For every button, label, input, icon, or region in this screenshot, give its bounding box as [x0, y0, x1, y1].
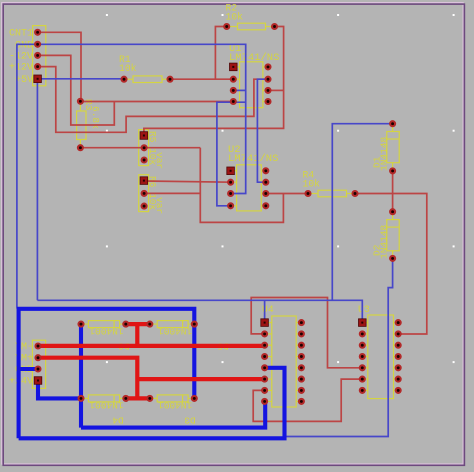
pin U3.R11: [396, 354, 401, 359]
wire U4 pin2 to U3 pin L5: [251, 298, 362, 368]
svg-text:U3: U3: [358, 304, 370, 315]
pin U4.R14: [299, 377, 304, 382]
pin U1.R4: [266, 99, 271, 104]
wire -12V branch down to node: [38, 55, 115, 125]
diode D4 lead2: [120, 397, 126, 399]
pin R4.1: [306, 191, 311, 196]
pin U4.L5: [262, 365, 267, 370]
diode D1 body: [387, 132, 399, 163]
bus GND left vertical: [17, 309, 21, 439]
pin U4.L1: [261, 319, 269, 327]
svg-text:LM741/NS: LM741/NS: [228, 153, 278, 165]
diode D1 lead2: [392, 163, 394, 171]
pin U3.L3: [360, 343, 365, 348]
diode D4 leads: [81, 397, 88, 399]
resistor R2 leads: [227, 26, 238, 28]
pin U3.R8: [396, 320, 401, 325]
svg-text:LM741/NS: LM741/NS: [229, 52, 279, 64]
resistor R2 lead2: [266, 26, 275, 28]
wire R1.right to U1 pin2: [170, 78, 233, 80]
pin J1.4 +12V: [35, 64, 40, 69]
wire D1 cathode to D2 anode: [392, 171, 394, 212]
pin J1.2 GND: [35, 42, 40, 47]
diode D6 body: [88, 321, 119, 328]
pin R1.2: [168, 77, 173, 82]
svg-text:-12V: -12V: [9, 51, 33, 62]
pin J2.4 +24V: [34, 377, 42, 385]
bus bridge node D4-D3: [125, 396, 150, 400]
wire GND tee to U2 pin5: [217, 102, 246, 206]
pin U1.R3: [266, 88, 271, 93]
svg-text:1N4001: 1N4001: [158, 325, 193, 336]
pin J2.1 YM-: [36, 344, 41, 349]
pin R2.1: [224, 24, 229, 29]
bus YM- tee to diode bridge top: [135, 324, 139, 346]
pin R5.3: [142, 158, 147, 163]
pin D2.K: [390, 256, 395, 261]
pin U4.R12: [299, 354, 304, 359]
pin U1.L1: [230, 63, 238, 71]
svg-text:CNT1: CNT1: [9, 28, 33, 39]
wire branch to U1 pin6 output: [268, 89, 284, 91]
wire R3.top to U1 pin4: [80, 101, 233, 103]
resistor R2 body: [238, 23, 266, 30]
wire U4 pin7 to U3 pin L6: [253, 379, 362, 421]
bus GND bottom run to U4 pin5: [19, 368, 285, 439]
wire GND tee to U1 pin3: [233, 89, 245, 91]
pin R3.2: [78, 145, 83, 150]
wire +5V horizontal run: [37, 300, 362, 322]
svg-text:D4: D4: [112, 415, 124, 426]
pin U1.R2: [266, 77, 271, 82]
pin R3.1: [78, 99, 83, 104]
svg-text:10k: 10k: [119, 63, 137, 74]
pin R1.1: [122, 77, 127, 82]
pin R6.3: [142, 204, 147, 209]
bus GND stub J2.3: [17, 367, 38, 371]
pin U4.L7: [262, 388, 267, 393]
svg-text:+24V: +24V: [9, 377, 33, 388]
wire R5.1 net to R2.right: [144, 27, 284, 136]
pin D3.1: [147, 396, 152, 401]
pin D6.2: [123, 322, 128, 327]
wire GND net to U1/U2: [38, 44, 246, 193]
pin R6.1: [140, 177, 148, 185]
wire +5V vertical drop: [36, 79, 38, 300]
svg-text:1N4148: 1N4148: [379, 224, 390, 259]
diode D5 leads: [150, 323, 157, 325]
pin U4.L4: [262, 354, 267, 359]
pin U4.R16: [299, 399, 304, 404]
wire R5.2 net down: [200, 148, 283, 223]
pin D6.1: [79, 322, 84, 327]
wire R4.right to U3 pin R2: [355, 194, 427, 335]
pin J2.2 YM+: [36, 355, 41, 360]
pin U4.L3: [262, 343, 267, 348]
pin U4.R11: [299, 343, 304, 348]
resistor R1 leads: [124, 78, 133, 80]
wire GND left drop: [17, 44, 38, 309]
pin U1.R1: [266, 64, 271, 69]
resistor R4 lead2: [347, 193, 356, 195]
svg-text:+12V: +12V: [9, 63, 33, 74]
IC U4 pin stubs: [265, 323, 302, 402]
pin D1.A: [390, 121, 395, 126]
potentiometer R5 outline: [139, 130, 149, 166]
pin U1.L2: [231, 77, 236, 82]
pin U2.R2: [263, 180, 268, 185]
connector J1 outline: [33, 26, 46, 86]
wire R6.2 to node: [144, 192, 200, 194]
bus +24V J2.4 to D4 anode: [38, 381, 81, 399]
bus bottom run to U4 pin8: [81, 401, 265, 427]
pin D2.A: [390, 209, 395, 214]
wire R6.1 to U2 pin2: [144, 181, 231, 182]
diode D2 leads: [392, 212, 394, 220]
diode D1 leads: [392, 124, 394, 132]
IC U4 outline: [272, 316, 296, 407]
pin R5.2: [142, 145, 147, 150]
svg-text:1N4148: 1N4148: [379, 136, 390, 171]
pin R5.1: [140, 132, 148, 140]
resistor R3 lead2: [79, 140, 81, 148]
bus bridge node D6-D5: [126, 322, 150, 326]
op-amp U1 pin stubs: [233, 67, 268, 102]
pin U2.R4: [263, 203, 268, 208]
pin U1.L3: [231, 88, 236, 93]
resistor R3 body: [77, 111, 86, 140]
pin R2.2: [272, 24, 277, 29]
pin D5.2: [192, 322, 197, 327]
potentiometer R6 outline: [139, 175, 149, 212]
pin U2.R1: [263, 168, 268, 173]
pin J2.3 GND: [36, 367, 41, 372]
op-amp U2 outline: [237, 165, 262, 211]
pin U3.R10: [396, 343, 401, 348]
wire +5V to R1.left: [38, 78, 124, 80]
wire U1 pin7 to U2 pin7: [257, 79, 268, 182]
pin U2.L4: [228, 203, 233, 208]
diode D6 lead2: [120, 323, 126, 325]
bus GND middle run: [17, 309, 194, 399]
op-amp U2 pin stubs: [231, 171, 266, 206]
diode D2 body: [387, 220, 399, 251]
pin U4.R15: [299, 388, 304, 393]
wire R2.left down to R1 net: [215, 27, 226, 80]
pin U3.R12: [396, 365, 401, 370]
pin D1.K: [390, 168, 395, 173]
pin U4.L2: [262, 331, 267, 336]
pin U4.L6: [262, 377, 267, 382]
diode D4 body: [88, 395, 119, 402]
pin U3.L2: [360, 331, 365, 336]
wire +12V net to U1 pin7: [38, 67, 268, 133]
pin U4.R13: [299, 365, 304, 370]
bus diode column D6-D4: [79, 324, 83, 428]
pin R6.2: [142, 191, 147, 196]
pin U4.R10: [299, 331, 304, 336]
pin U3.L7: [360, 388, 365, 393]
pin U2.L3: [228, 191, 233, 196]
IC U3 pin stubs: [362, 323, 398, 391]
pin J1.5 +5V: [34, 75, 42, 83]
pin U2.R3: [263, 191, 268, 196]
connector J2 outline: [32, 340, 45, 388]
svg-text:1N4001: 1N4001: [158, 400, 193, 411]
pin U3.R9: [396, 331, 401, 336]
pin R4.2: [353, 191, 358, 196]
op-amp U1 outline: [240, 62, 263, 108]
pin D4.2: [123, 396, 128, 401]
svg-text:var: var: [154, 152, 165, 169]
diode D5 body: [157, 321, 188, 328]
pin D3.2: [192, 396, 197, 401]
wire D2 cathode to ground bus: [285, 258, 393, 436]
pin U2.L2: [228, 180, 233, 185]
pin U3.L6: [360, 377, 365, 382]
resistor R1 lead2: [162, 78, 170, 80]
bus YM- to U4 pin3: [38, 344, 265, 348]
diode D3 body: [157, 395, 188, 402]
bus YM+ run: [38, 358, 137, 399]
wire +5V tee to U4 pin1: [264, 300, 266, 322]
pin U3.L5: [360, 365, 365, 370]
pin D4.1: [79, 396, 84, 401]
wire R3.bottom to R5.2: [80, 147, 200, 149]
svg-text:10k: 10k: [303, 179, 321, 190]
diode D2 lead2: [392, 251, 394, 259]
pin U2.L1: [227, 167, 235, 175]
pin U3.R14: [396, 388, 401, 393]
diode D3 leads: [150, 397, 157, 399]
pin U3.L4: [360, 354, 365, 359]
svg-text:1N4001: 1N4001: [89, 400, 124, 411]
wire +5V tee up to D1 anode: [332, 124, 392, 301]
resistor R1 body: [133, 76, 162, 83]
svg-text:var: var: [154, 197, 165, 214]
pin U4.L8: [262, 399, 267, 404]
diode D5 lead2: [188, 323, 194, 325]
svg-text:10k: 10k: [226, 12, 244, 23]
svg-text:D3: D3: [184, 415, 196, 426]
wire U2 pin6 to R4.left: [266, 193, 308, 195]
pin U3.L1: [359, 319, 367, 327]
grid reference dots: [106, 14, 455, 363]
diode D6 leads: [81, 323, 88, 325]
svg-text:1N4001: 1N4001: [89, 325, 124, 336]
resistor R3 leads: [79, 101, 81, 111]
pin U4.R9: [299, 320, 304, 325]
resistor R4 leads: [308, 193, 318, 195]
pin J1.1 CNT1: [35, 30, 40, 35]
pin J1.3 -12V: [35, 53, 40, 58]
bus YM+ tee to U4 pin6: [137, 377, 264, 381]
pin U3.R13: [396, 377, 401, 382]
pin D5.1: [147, 322, 152, 327]
diode D3 lead2: [188, 397, 194, 399]
IC U3 outline: [368, 315, 394, 399]
pin U1.L4: [231, 99, 236, 104]
wire CNT1 net: J1.1 to R3.top: [38, 32, 81, 101]
resistor R4 body: [318, 190, 347, 197]
